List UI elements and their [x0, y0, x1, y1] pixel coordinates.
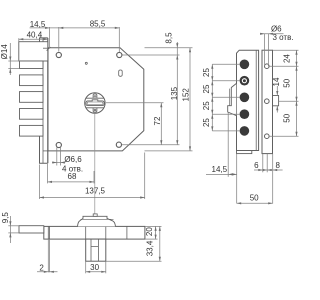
- cylinder axis line down to bottom view: [94, 113, 96, 226]
- corner slash tick: [47, 47, 51, 51]
- depth box: [86, 239, 106, 261]
- 8,5 arrow (outside, down onto top edge): [176, 43, 178, 48]
- faceplate slab lines: [47, 226, 49, 239]
- plate hole 2: [265, 99, 270, 104]
- 2 arrows (outside): [44, 271, 49, 273]
- bottom-view bolt: [19, 226, 44, 233]
- screw hole top-right: [117, 52, 122, 57]
- bolt 1: [20, 61, 44, 69]
- O6,6 arrows (outside): [52, 161, 57, 163]
- side case inner right line: [255, 50, 257, 150]
- bar right divider: [126, 226, 128, 239]
- svg-text:8: 8: [275, 161, 280, 170]
- 6/8 arrows: [258, 169, 263, 171]
- latch big rect: [19, 42, 48, 61]
- cylinder top tab: [93, 94, 97, 98]
- lock body outline: [48, 48, 144, 151]
- 152 arrows: [189, 48, 191, 53]
- bottom bar body: [44, 226, 145, 239]
- svg-text:72: 72: [153, 116, 162, 125]
- svg-text:20: 20: [145, 227, 154, 236]
- bolt circle 1: [240, 60, 250, 70]
- svg-text:14,5: 14,5: [212, 165, 228, 174]
- bottom 50 dim: [272, 154, 274, 204]
- 68 dim: [47, 164, 49, 183]
- body top edge across faceplate: [43, 47, 48, 49]
- bolt 5: [20, 125, 44, 136]
- 33,4 dim: [106, 260, 162, 262]
- cylinder dome: [78, 216, 116, 226]
- 14,5 arrows (outside): [45, 27, 50, 29]
- depth box lines through bar: [85, 226, 87, 239]
- small pin hole: [85, 62, 87, 64]
- 30 arrows: [86, 271, 91, 273]
- depth box inner channel: [91, 239, 98, 261]
- body bottom edge across faceplate: [43, 150, 48, 152]
- bolt circle 3: [240, 93, 250, 103]
- svg-text:14: 14: [272, 77, 281, 86]
- O14 dim: [9, 43, 11, 75]
- bolt circle 2 (with ring): [240, 76, 250, 86]
- cylinder key slot with center bump: [86, 100, 104, 106]
- svg-text:30: 30: [90, 263, 99, 272]
- 2 dim extensions: [47, 239, 49, 272]
- svg-text:8,5: 8,5: [165, 32, 174, 44]
- 24/50/50 arrows: [295, 50, 297, 55]
- O6 dim top: [264, 34, 266, 66]
- O6,6 dim line: [52, 162, 63, 164]
- 20 arrows: [155, 226, 157, 231]
- screw hole top-left: [56, 52, 61, 57]
- 20 dim: [146, 225, 162, 227]
- side view 25 dims: [212, 63, 239, 65]
- cylinder bottom tab: [93, 108, 97, 112]
- O14 arrows (outside): [9, 57, 11, 62]
- svg-text:Ø14: Ø14: [0, 44, 9, 60]
- svg-text:50: 50: [282, 113, 291, 122]
- 137,5 dim: [39, 165, 41, 200]
- 14,5 side dim: [227, 112, 229, 177]
- 14 dim keeper: [276, 86, 278, 96]
- svg-text:Ø6,6: Ø6,6: [64, 155, 82, 164]
- 85,5 right arrow: [115, 27, 120, 29]
- right side extensions: [145, 47, 193, 49]
- svg-text:3 отв.: 3 отв.: [272, 33, 293, 42]
- cylinder chord bottom: [86, 107, 104, 109]
- 40,4 arrows: [19, 38, 24, 40]
- slot: [119, 70, 123, 76]
- svg-text:137,5: 137,5: [85, 187, 106, 196]
- faceplate: [40, 38, 48, 163]
- screw hole bottom-left: [56, 142, 61, 147]
- svg-text:85,5: 85,5: [90, 20, 106, 29]
- 40,4 dim line: [19, 38, 48, 40]
- svg-text:33,4: 33,4: [146, 240, 155, 256]
- svg-text:152: 152: [182, 88, 191, 102]
- svg-text:25: 25: [202, 118, 211, 127]
- svg-text:14,5: 14,5: [30, 20, 46, 29]
- key slot inner line: [87, 102, 103, 105]
- side right dims 24/50/50: [273, 49, 299, 51]
- cylinder top tab cross: [94, 95, 97, 98]
- svg-text:24: 24: [282, 54, 291, 63]
- cylinder outer circle: [85, 93, 105, 113]
- svg-text:2: 2: [39, 264, 44, 273]
- cylinder bottom tab dot: [94, 109, 96, 111]
- 8,5 + 135 dim line: [176, 42, 178, 145]
- plate hole 3: [265, 134, 270, 139]
- dome ledge line: [81, 218, 114, 220]
- keeper box: [273, 96, 279, 106]
- 68 arrows: [48, 181, 53, 183]
- back plate strip: [262, 50, 273, 153]
- 30 dim: [85, 261, 87, 273]
- cylinder chord top: [86, 97, 104, 99]
- svg-text:50: 50: [250, 193, 259, 202]
- side case bottom step: [237, 151, 252, 154]
- 72 arrows: [160, 103, 162, 108]
- svg-text:68: 68: [68, 172, 77, 181]
- svg-text:25: 25: [202, 68, 211, 77]
- side case outline with chamfer: [237, 50, 259, 150]
- top dim extension lines: [49, 27, 51, 48]
- cylinder bump: [228, 84, 237, 116]
- bolt circle 4: [240, 109, 250, 119]
- dim line 14,5 / 85,5: [30, 27, 120, 29]
- bump inner line: [229, 89, 231, 106]
- 14 keeper arrows (outside): [276, 91, 278, 96]
- svg-text:40,4: 40,4: [27, 31, 43, 40]
- O6 arrows (outside): [260, 33, 265, 35]
- 9,5 arrows (outside): [9, 221, 11, 226]
- svg-text:50: 50: [282, 78, 291, 87]
- 33,4 arrows: [159, 226, 161, 231]
- 135 arrows: [176, 55, 178, 60]
- 137,5 arrows: [40, 196, 45, 198]
- 25 dim arrows: [211, 64, 213, 69]
- 14,5 side arrows: [228, 173, 233, 175]
- svg-text:6: 6: [254, 161, 259, 170]
- faceplate inner line: [42, 38, 44, 163]
- bolt 3: [20, 92, 44, 103]
- bolt 2: [20, 75, 44, 86]
- svg-text:9,5: 9,5: [1, 212, 10, 224]
- 72 dim line: [160, 103, 162, 145]
- svg-text:25: 25: [202, 84, 211, 93]
- plate hole 1: [265, 64, 270, 69]
- bolt circle 5: [240, 126, 250, 136]
- 6/8 dims: [262, 154, 264, 173]
- svg-text:25: 25: [202, 101, 211, 110]
- O6,6 extensions: [56, 148, 58, 166]
- 152 dim line: [189, 48, 191, 151]
- bolt 4: [20, 109, 44, 120]
- svg-text:135: 135: [170, 86, 179, 100]
- dome nub: [93, 214, 97, 216]
- bottom 50 arrows: [237, 202, 242, 204]
- screw hole bottom-right: [116, 142, 121, 147]
- 9,5 dim: [8, 225, 19, 227]
